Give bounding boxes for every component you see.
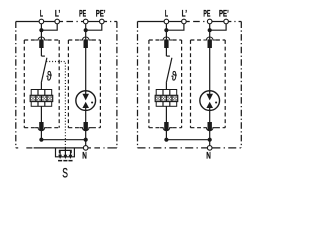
panel 1 terminal L' <box>55 19 60 24</box>
panel 2 lower connection element (GDT branch) <box>208 122 212 130</box>
panel 1 gas discharge tube <box>76 91 96 111</box>
panel 1 signalling contact pins <box>59 150 61 155</box>
svg-text:PE’: PE’ <box>219 9 229 19</box>
panel 2 enclosure border top edge <box>138 21 242 23</box>
panel 2 bottom junction node (GDT branch) <box>208 138 212 142</box>
panel 2 wire PE' terminal to junction <box>210 24 226 30</box>
panel 1 wire PE terminal to junction <box>85 24 87 30</box>
panel 1 dashed module box around gas discharge tube branch <box>68 37 100 131</box>
svg-text:L: L <box>40 9 43 19</box>
panel 2 wire L' terminal to junction <box>166 24 184 30</box>
panel 2 junction node under L <box>164 28 168 32</box>
panel 2 junction node under PE <box>208 28 212 32</box>
panel 1 enclosure border right edge <box>116 22 118 148</box>
panel 2 dashed module box around varistor branch <box>149 37 182 131</box>
svg-text:N: N <box>82 150 87 160</box>
panel 1 wire PE' terminal to junction <box>86 24 102 30</box>
panel 1 wire junction to terminal N <box>85 140 87 146</box>
svg-text:L’: L’ <box>182 9 187 19</box>
panel 2 gas discharge tube <box>200 91 220 111</box>
panel 2 wire to bottom junction (GDT branch) <box>209 130 211 139</box>
panel 2 switch fixed contact tick <box>166 55 170 57</box>
panel 2 wire L terminal to junction <box>165 24 167 30</box>
panel 2 wire varistor to lower disconnector <box>165 106 167 122</box>
svg-text:PE’: PE’ <box>96 9 106 19</box>
panel 2 enclosure border bottom edge <box>138 147 242 149</box>
panel 2 wire switch to varistor <box>165 83 167 90</box>
panel 2 terminal PE <box>207 19 212 24</box>
panel 1 wire element to gas discharge tube <box>85 48 87 91</box>
panel 2 wire junction to thermal disconnector <box>165 30 167 39</box>
panel 1 wire varistor to lower disconnector <box>40 106 42 122</box>
panel 1 terminal PE' <box>100 19 105 24</box>
panel 2 varistor module <box>155 90 178 107</box>
panel 2 wire PE terminal to junction <box>209 24 211 30</box>
panel 1 wire junction to upper element (GDT branch) <box>85 30 87 39</box>
panel 1 wire switch to varistor <box>40 83 42 90</box>
panel 2 enclosure border left edge <box>137 22 139 148</box>
panel 2 terminal L' <box>182 19 187 24</box>
panel 1 junction node under PE <box>84 28 88 32</box>
panel 2 terminal PE' <box>224 19 229 24</box>
panel 2 wire disconnector to switch contact <box>165 48 167 56</box>
panel 2 lower connection element (varistor branch) <box>164 122 168 130</box>
svg-text:ϑ: ϑ <box>47 69 53 84</box>
panel 2 wire gas discharge tube to lower element <box>209 110 211 122</box>
panel 1 thermal switch blade <box>41 58 47 83</box>
panel 1 wire to bottom junction (GDT branch) <box>85 130 87 139</box>
panel 2 dashed module box around gas discharge tube branch <box>191 37 226 131</box>
panel 2 bottom junction wire between branches <box>166 139 209 141</box>
panel 1 enclosure border top edge <box>16 21 117 23</box>
panel 1 varistor module <box>30 90 53 107</box>
panel 2 wire to bottom junction <box>165 130 167 139</box>
panel 1 terminal L <box>39 19 44 24</box>
panel 2 wire element to gas discharge tube <box>209 48 211 91</box>
panel 1 junction node under L <box>39 28 43 32</box>
panel 1 wire L terminal to junction <box>40 24 42 30</box>
panel 1 wire to bottom junction <box>40 130 42 139</box>
panel 2 bottom junction node (varistor branch) <box>164 138 168 142</box>
panel 2 thermal disconnector element (top) <box>164 39 168 48</box>
panel 2 thermal switch blade <box>166 58 172 83</box>
panel 2 upper connection element (GDT branch) <box>208 39 212 48</box>
svg-text:N: N <box>206 150 211 160</box>
panel 1 thermal disconnector element (top) <box>39 39 43 48</box>
panel 1 bottom junction node (varistor branch) <box>39 138 43 142</box>
svg-text:L: L <box>165 9 168 19</box>
panel 1 lower connection element (GDT branch) <box>84 122 88 130</box>
panel 1 enclosure border bottom edge <box>16 147 117 149</box>
panel 1 terminal PE <box>83 19 88 24</box>
panel 1 wire L' terminal to junction <box>41 24 57 30</box>
panel 2 enclosure border right edge <box>240 22 242 148</box>
panel 1 upper connection element (GDT branch) <box>84 39 88 48</box>
panel 1 lower connection element (varistor branch) <box>39 122 43 130</box>
svg-text:ϑ: ϑ <box>172 69 178 84</box>
panel 1 switch fixed contact tick <box>41 55 45 57</box>
svg-text:PE: PE <box>79 9 86 19</box>
panel 1 terminal N <box>83 146 88 151</box>
panel 2 terminal N <box>207 146 212 151</box>
panel 2 wire junction to terminal N <box>209 140 211 146</box>
panel 2 wire junction to upper element (GDT branch) <box>209 30 211 39</box>
panel 1 bottom junction node (GDT branch) <box>84 138 88 142</box>
panel 1 wire gas discharge tube to lower element <box>85 110 87 122</box>
panel 1 remote signalling contact housing <box>56 149 75 157</box>
panel 1 enclosure border left edge <box>15 22 17 148</box>
panel 1 wire disconnector to switch contact <box>40 48 42 56</box>
svg-text:S: S <box>62 166 68 179</box>
panel 1 bottom junction wire between branches <box>41 139 85 141</box>
panel 1 wire junction to thermal disconnector <box>40 30 42 39</box>
panel 1 dashed module box around varistor branch <box>24 37 59 131</box>
panel 1 mechanical link (dotted) switch to signalling contact <box>46 62 65 151</box>
panel 2 terminal L <box>164 19 169 24</box>
svg-text:L’: L’ <box>55 9 60 19</box>
svg-text:PE: PE <box>203 9 210 19</box>
